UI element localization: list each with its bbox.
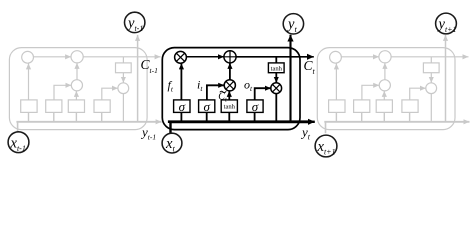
node xt (input circle) <box>162 133 182 153</box>
faded next LSTM cell (t+1) <box>317 35 469 133</box>
wire: forget gate up to multiply <box>180 63 182 100</box>
svg-text:tanh: tanh <box>271 65 283 72</box>
tanh box (candidate) <box>221 100 237 113</box>
node xt+1 (input circle, next step) <box>315 135 337 157</box>
multiply node (output gate) <box>271 83 282 94</box>
wire: cell-state line Ct-1 -> forget product <box>186 56 224 58</box>
svg-text:Ct: Ct <box>304 58 316 76</box>
wire: cell-state line after adder, exits right as Ct <box>236 56 314 58</box>
sigma box (forget gate) <box>174 100 190 113</box>
svg-text:it: it <box>197 78 203 94</box>
tanh box (cell output squash) <box>268 63 284 73</box>
wire: output riser up to yt <box>289 35 291 122</box>
sigma box (output gate) <box>247 100 263 113</box>
wire: candidate tanh up to input product <box>228 91 230 100</box>
multiply node (input gate) <box>224 80 235 91</box>
wire: cell-state branch down into tanh <box>275 57 277 63</box>
multiply node (forget gate) <box>175 51 187 63</box>
wire: input product up to adder <box>229 63 231 80</box>
svg-text:Ct-1: Ct-1 <box>141 57 158 75</box>
wire: input gate sigma to input product <box>207 85 224 100</box>
wire: xt up into bus <box>169 122 171 133</box>
wire: output product down to output bus <box>275 94 277 122</box>
svg-text:ft: ft <box>168 78 174 94</box>
node yt-1 (output circle, previous step) <box>125 12 145 33</box>
svg-text:ot: ot <box>244 78 253 94</box>
svg-text:yt: yt <box>300 125 311 142</box>
faded previous LSTM cell (t-1) <box>9 35 161 133</box>
wire: input bus (xt and yt-1) feeding the gates, exits right as yt <box>169 122 309 123</box>
svg-text:yt-1: yt-1 <box>140 125 156 142</box>
LSTM cell body (rounded rectangle) <box>162 48 300 130</box>
add node <box>224 51 236 63</box>
wire: output gate sigma to output product <box>255 88 271 100</box>
node yt (output circle) <box>283 14 303 34</box>
node yt+1 (output circle, next step) <box>436 13 457 34</box>
sigma box (input gate) <box>199 100 215 113</box>
svg-text:tanh: tanh <box>224 104 236 111</box>
node xt-1 (input circle, previous step) <box>8 132 29 153</box>
svg-text:σ: σ <box>179 99 186 114</box>
svg-text:σ: σ <box>252 99 259 114</box>
wire: tanh down to output product <box>275 73 277 83</box>
svg-text:Ct: Ct <box>218 91 227 103</box>
svg-text:σ: σ <box>203 99 210 114</box>
wire: gate box stubs down to bus <box>181 112 254 121</box>
